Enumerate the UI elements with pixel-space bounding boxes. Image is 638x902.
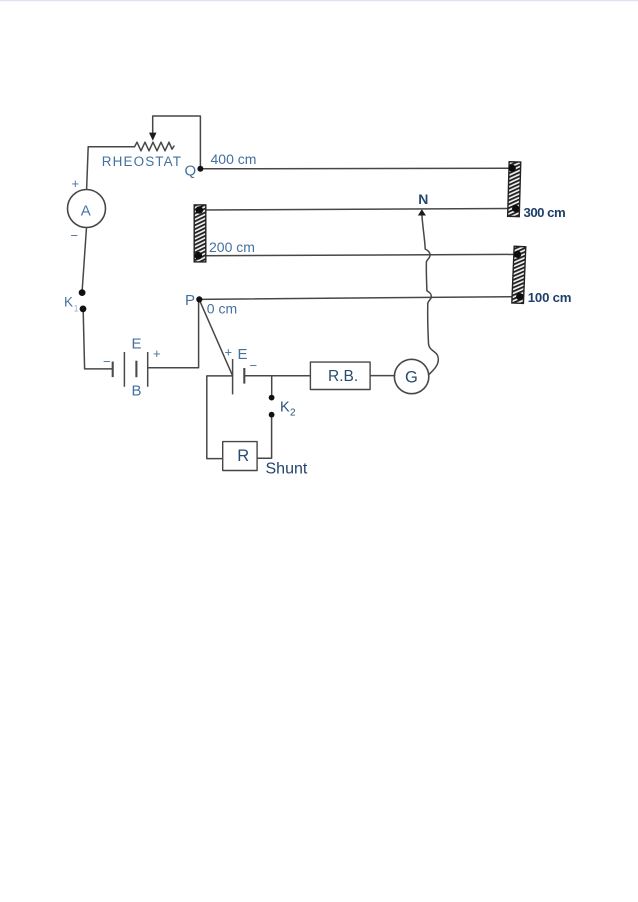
- svg-text:G: G: [405, 369, 418, 387]
- svg-text:E: E: [238, 346, 248, 363]
- svg-text:−: −: [103, 354, 111, 369]
- svg-text:N: N: [418, 191, 428, 207]
- svg-text:1: 1: [74, 304, 79, 314]
- svg-text:−: −: [250, 358, 258, 373]
- svg-text:Q: Q: [185, 163, 197, 180]
- svg-text:0 cm: 0 cm: [207, 301, 237, 317]
- svg-text:+: +: [225, 345, 233, 360]
- svg-text:P: P: [185, 292, 195, 309]
- svg-text:K: K: [64, 295, 73, 310]
- svg-text:R.B.: R.B.: [328, 368, 358, 385]
- svg-text:E: E: [132, 336, 142, 353]
- svg-text:K: K: [280, 400, 290, 416]
- svg-text:400 cm: 400 cm: [211, 151, 257, 167]
- svg-text:2: 2: [290, 408, 296, 419]
- svg-text:R: R: [237, 447, 249, 465]
- svg-text:+: +: [72, 176, 80, 191]
- svg-text:300 cm: 300 cm: [524, 205, 566, 220]
- svg-text:A: A: [81, 203, 91, 220]
- svg-text:−: −: [71, 228, 79, 243]
- svg-text:100 cm: 100 cm: [528, 290, 572, 305]
- svg-text:200 cm: 200 cm: [209, 239, 255, 255]
- svg-text:Shunt: Shunt: [266, 461, 308, 478]
- svg-text:B: B: [132, 383, 142, 400]
- svg-text:RHEOSTAT: RHEOSTAT: [102, 154, 182, 169]
- svg-text:+: +: [153, 346, 161, 361]
